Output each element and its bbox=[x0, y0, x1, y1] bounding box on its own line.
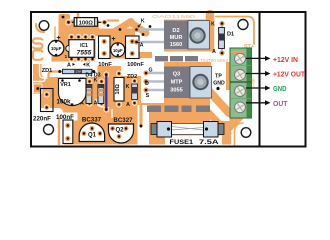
svg-text:FUSE1: FUSE1 bbox=[170, 140, 194, 146]
svg-text:10µF: 10µF bbox=[113, 48, 123, 53]
svg-text:MTP: MTP bbox=[171, 80, 183, 86]
svg-text:Q3: Q3 bbox=[173, 72, 180, 78]
svg-text:Q1: Q1 bbox=[88, 132, 97, 138]
svg-text:S: S bbox=[146, 93, 150, 99]
svg-text:K: K bbox=[126, 84, 130, 90]
svg-text:1560: 1560 bbox=[170, 42, 182, 48]
svg-text:220nF: 220nF bbox=[33, 116, 51, 123]
svg-text:A: A bbox=[94, 101, 98, 107]
svg-text:7555: 7555 bbox=[77, 50, 92, 57]
svg-text:+: + bbox=[111, 36, 115, 43]
svg-text:Q2: Q2 bbox=[115, 128, 124, 134]
svg-text:10Ω: 10Ω bbox=[115, 83, 121, 94]
svg-text:GND: GND bbox=[273, 86, 287, 93]
svg-text:D: D bbox=[145, 81, 149, 87]
svg-text:VR1: VR1 bbox=[60, 82, 71, 88]
svg-text:A: A bbox=[140, 43, 144, 49]
svg-text:+12V IN: +12V IN bbox=[273, 57, 298, 64]
svg-text:K: K bbox=[86, 63, 90, 69]
svg-text:10µF: 10µF bbox=[51, 46, 62, 51]
svg-text:K: K bbox=[141, 19, 145, 25]
svg-text:OAO11590: OAO11590 bbox=[152, 14, 196, 19]
svg-text:BC327: BC327 bbox=[113, 117, 133, 124]
svg-text:OUT: OUT bbox=[273, 101, 288, 108]
svg-text:GND: GND bbox=[213, 81, 225, 87]
svg-text:IC1: IC1 bbox=[80, 43, 88, 49]
svg-text:7.5A: 7.5A bbox=[199, 139, 219, 146]
svg-text:K: K bbox=[94, 78, 98, 84]
svg-text:100nF: 100nF bbox=[127, 62, 144, 68]
svg-text:A: A bbox=[126, 102, 130, 108]
svg-text:ZD1: ZD1 bbox=[42, 68, 53, 74]
svg-text:D2: D2 bbox=[172, 28, 179, 34]
svg-text:3055: 3055 bbox=[170, 88, 182, 94]
svg-text:T04T00 MW4: T04T00 MW4 bbox=[200, 58, 228, 63]
svg-text:G: G bbox=[148, 68, 152, 74]
svg-text:A: A bbox=[212, 49, 216, 55]
svg-text:A: A bbox=[67, 63, 71, 69]
svg-text:100Ω: 100Ω bbox=[79, 20, 94, 26]
svg-text:1: 1 bbox=[64, 54, 67, 60]
svg-text:10nF: 10nF bbox=[98, 62, 112, 68]
svg-text:MUR: MUR bbox=[170, 35, 183, 41]
svg-text:TP: TP bbox=[215, 74, 222, 80]
svg-text:100k: 100k bbox=[56, 98, 71, 105]
svg-text:D1: D1 bbox=[227, 32, 234, 38]
svg-text:K: K bbox=[211, 22, 215, 28]
svg-text:13V: 13V bbox=[75, 70, 80, 74]
svg-text:+12V OUT: +12V OUT bbox=[273, 72, 306, 79]
